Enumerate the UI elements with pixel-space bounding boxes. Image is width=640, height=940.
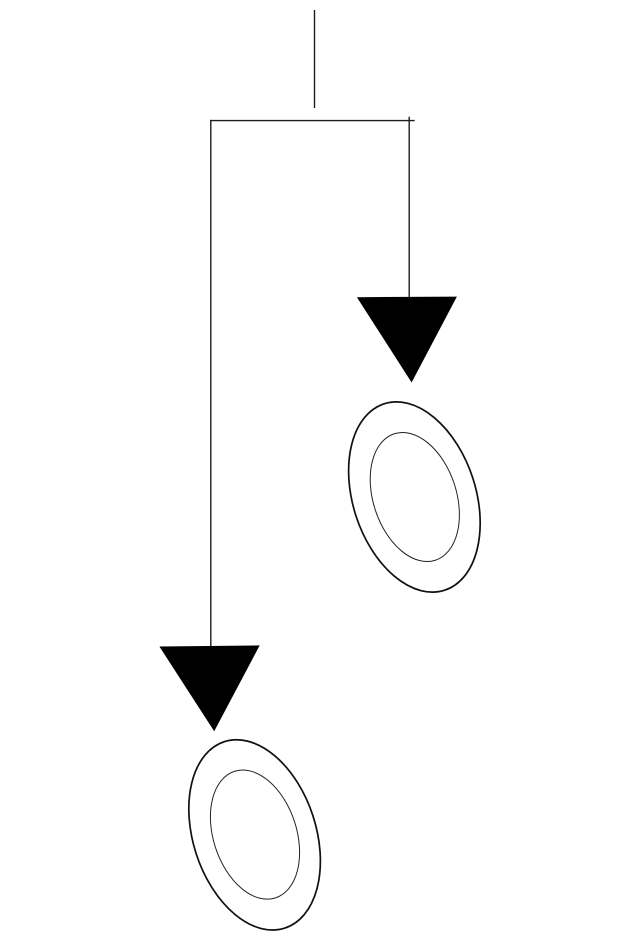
O-ring left inner — [195, 758, 315, 910]
wire: left vertical leader — [210, 120, 212, 647]
O-ring left outer — [166, 723, 343, 940]
wire: horizontal branch line — [210, 120, 415, 122]
arrowhead right — [357, 297, 457, 383]
wire: right vertical leader — [408, 117, 410, 297]
O-ring right outer — [326, 385, 503, 609]
O-ring right inner — [355, 421, 475, 573]
arrowhead left — [159, 645, 259, 731]
wire: top leader line — [314, 10, 316, 108]
